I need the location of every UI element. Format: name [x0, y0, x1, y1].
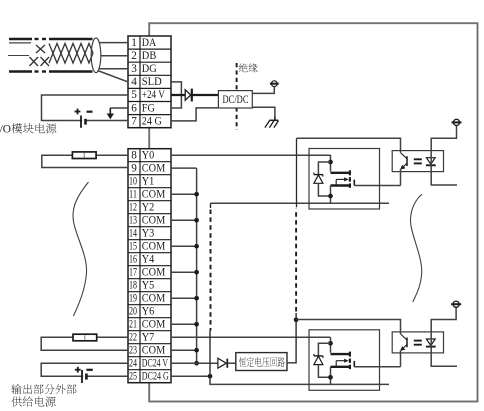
optocoupler box PC Y0	[392, 151, 443, 172]
svg-text:2: 2	[131, 50, 137, 62]
label external supply line2	[11, 396, 55, 406]
svg-text:Y2: Y2	[142, 201, 155, 213]
junction dot source-zener Y7	[328, 375, 333, 380]
cable end ellipse	[91, 38, 101, 73]
wire LED through opto Y7	[430, 332, 432, 353]
svg-text:3: 3	[131, 63, 137, 75]
terminal T1 +5V output	[270, 81, 279, 87]
svg-text:COM: COM	[142, 344, 166, 356]
svg-text:6: 6	[131, 102, 137, 114]
junction dot COM bus to DC24V	[194, 361, 199, 366]
svg-text:+24 V: +24 V	[142, 89, 165, 101]
diode D1 on +24V line	[185, 89, 192, 102]
svg-text:Y4: Y4	[142, 253, 155, 265]
terminal T2 load power	[452, 119, 462, 125]
svg-text:19: 19	[129, 292, 137, 304]
opto LED Y0	[426, 158, 436, 166]
wire pin11 COM stub	[171, 193, 197, 195]
right repetition squiggle	[411, 194, 422, 302]
wire entry to drain Y0	[330, 155, 332, 172]
wire Y0 load loop pins 8-9	[42, 155, 128, 167]
svg-text:24 G: 24 G	[142, 115, 162, 127]
phototransistor Y0	[400, 153, 407, 170]
svg-text:16: 16	[129, 253, 137, 265]
wire cable to pin 3 DG	[100, 68, 129, 70]
svg-text:Y7: Y7	[142, 331, 155, 343]
dashed repetition rail left	[210, 210, 212, 331]
zener diode ZD Y7	[314, 343, 331, 377]
svg-text:COM: COM	[142, 266, 166, 278]
wire cable to pin 1 DA	[100, 42, 129, 44]
phototransistor Y7	[400, 334, 407, 351]
svg-text:20: 20	[129, 305, 137, 317]
svg-text:8: 8	[131, 149, 137, 161]
wire 24G to DC/DC	[171, 108, 218, 121]
terminal block TB1 pins 1-7	[128, 36, 171, 128]
junction dot drain-zener Y0	[328, 160, 333, 165]
wire FG pin6 to earth	[110, 107, 128, 109]
junction dot pin13	[194, 218, 199, 223]
opto coupling bars Y7	[414, 340, 422, 342]
junction dot pin17	[194, 270, 199, 275]
wire pin13 COM stub	[171, 219, 197, 221]
cable inner wire B	[8, 55, 29, 57]
junction dot drain-zener Y7	[328, 341, 333, 346]
svg-text:DG: DG	[142, 63, 157, 75]
wire shield drain to pin 4 SLD	[98, 71, 129, 82]
svg-text:18: 18	[129, 279, 137, 291]
svg-text:5: 5	[131, 89, 137, 101]
svg-text:11: 11	[129, 188, 137, 200]
cable twist crosses left	[30, 45, 50, 66]
svg-text:25: 25	[129, 370, 137, 382]
label insulation	[239, 63, 258, 72]
svg-text:14: 14	[129, 227, 137, 239]
junction dot pin11	[194, 192, 199, 197]
label external supply line1	[11, 384, 76, 394]
wire gate Y0	[354, 185, 400, 187]
svg-text:Y1: Y1	[142, 175, 155, 187]
cable inner wire A	[9, 42, 31, 44]
wire DC24V pin24 to diode	[171, 362, 218, 364]
DC/DC converter U2	[218, 91, 252, 108]
battery B1 I/O module power	[75, 109, 93, 128]
wire +24V pin5 loop to pin7 24G	[42, 95, 129, 121]
dashed repetition rail right	[295, 209, 297, 312]
svg-text:COM: COM	[142, 214, 166, 226]
wire terminal T2 to LED Y0	[431, 126, 456, 151]
svg-text:15: 15	[129, 240, 137, 252]
svg-text:1: 1	[131, 37, 137, 49]
wire DC/DC to chassis ground	[252, 107, 275, 116]
battery B2 external supply	[75, 367, 93, 383]
wire source return Y7 circuit	[209, 383, 389, 385]
wire source return Y0 circuit	[211, 202, 390, 204]
junction dot collector bottom	[294, 317, 299, 322]
svg-text:Y3: Y3	[142, 227, 155, 239]
svg-text:17: 17	[129, 266, 137, 278]
wire DC/DC to +5V terminal	[252, 87, 274, 93]
wire emitter to gate Y7	[400, 350, 402, 367]
wire pin15 COM stub	[171, 245, 197, 247]
svg-text:9: 9	[131, 162, 137, 174]
svg-text:12: 12	[129, 201, 137, 213]
wire external supply loop pins 24-25	[41, 363, 128, 376]
wire LED through opto Y0	[430, 151, 432, 172]
wire pin17 COM stub	[171, 271, 197, 273]
svg-text:FG: FG	[142, 102, 155, 114]
rail solid upper right	[296, 138, 298, 207]
svg-text:Y5: Y5	[142, 279, 155, 291]
PLC module outline	[149, 23, 477, 401]
wire gate Y7	[354, 366, 400, 368]
svg-text:COM: COM	[142, 162, 166, 174]
svg-text:DC24 V: DC24 V	[142, 357, 168, 369]
junction dot pin15	[194, 244, 199, 249]
svg-text:COM: COM	[142, 318, 166, 330]
wire source Y7	[330, 367, 332, 385]
output MOSFET box Y0	[309, 149, 380, 210]
diode D2	[218, 358, 227, 368]
optocoupler box PC Y7	[392, 332, 443, 353]
opto coupling bars Y0	[414, 158, 422, 160]
wire SLD-FG jumper	[171, 82, 181, 108]
wire cable to pin 2 DB	[101, 55, 128, 57]
terminal T3 load power	[451, 301, 461, 307]
svg-text:DC/DC: DC/DC	[223, 92, 249, 106]
svg-text:10: 10	[129, 175, 137, 187]
cable shield top line	[9, 38, 93, 40]
opto LED Y7	[426, 339, 436, 347]
wire diode to constant voltage circuit	[227, 362, 236, 364]
terminal block TB2 pins 8-25	[128, 149, 171, 383]
junction dot pin21	[194, 322, 199, 327]
svg-text:Y0: Y0	[142, 149, 155, 161]
svg-text:23: 23	[129, 344, 137, 356]
svg-text:DB: DB	[142, 50, 157, 62]
wire Y7 to output transistor	[171, 336, 330, 338]
rail solid lower left	[209, 331, 211, 385]
cable shield bottom line	[9, 70, 93, 72]
junction dot source-zener Y0	[328, 194, 333, 199]
svg-text:I/O: I/O	[0, 124, 11, 136]
svg-text:COM: COM	[142, 240, 166, 252]
wire Y0 to output transistor	[171, 154, 331, 156]
COM bus vertical	[171, 168, 197, 364]
rail from constant voltage circuit	[287, 362, 296, 364]
wire DC24G pin25 to rail	[171, 375, 210, 377]
junction dot pin19	[194, 296, 199, 301]
wire emitter to gate Y0	[400, 169, 402, 186]
svg-text:24: 24	[129, 357, 137, 369]
svg-text:21: 21	[129, 318, 137, 330]
wire LED cathode out Y0	[431, 172, 457, 185]
constant voltage circuit U4	[236, 353, 287, 371]
svg-text:DC24 G: DC24 G	[142, 370, 169, 382]
junction dot pin23	[194, 348, 199, 353]
svg-text:4: 4	[131, 76, 137, 88]
wire +24V to DC/DC	[171, 94, 218, 96]
cable twisted weave	[49, 44, 93, 64]
wire collector Y0	[297, 138, 401, 152]
MOSFET Q Y0	[331, 170, 355, 188]
svg-text:COM: COM	[142, 188, 166, 200]
svg-text:22: 22	[129, 331, 137, 343]
left repetition squiggle	[73, 182, 89, 316]
insulation dashed line	[236, 63, 238, 130]
wire pin19 COM stub	[171, 297, 197, 299]
zener diode ZD Y0	[314, 162, 331, 196]
svg-text:13: 13	[129, 214, 137, 226]
wire Y7 load loop pins 22-23	[41, 337, 128, 350]
wire terminal T3 to LED Y7	[431, 307, 456, 332]
svg-text:SLD: SLD	[142, 76, 162, 88]
svg-text:Y6: Y6	[142, 305, 155, 317]
wire entry to drain Y7	[330, 337, 332, 353]
MOSFET Q Y7	[331, 352, 355, 370]
chassis ground symbol	[265, 117, 279, 128]
svg-text:DA: DA	[142, 37, 157, 49]
svg-text:7: 7	[131, 115, 137, 127]
junction dot DC24G rail	[208, 374, 213, 379]
output MOSFET box Y7	[309, 330, 380, 391]
wire LED cathode out Y7	[431, 353, 457, 366]
wire pin23 COM stub	[171, 349, 197, 351]
wire source Y0	[330, 186, 332, 204]
fuse F2	[73, 334, 97, 341]
wire pin21 COM stub	[171, 323, 197, 325]
earth ground symbol	[107, 108, 114, 119]
svg-text:COM: COM	[142, 292, 166, 304]
rail corner at source wire	[210, 203, 212, 208]
wire collector Y7	[297, 320, 401, 334]
fuse F1	[72, 152, 96, 159]
